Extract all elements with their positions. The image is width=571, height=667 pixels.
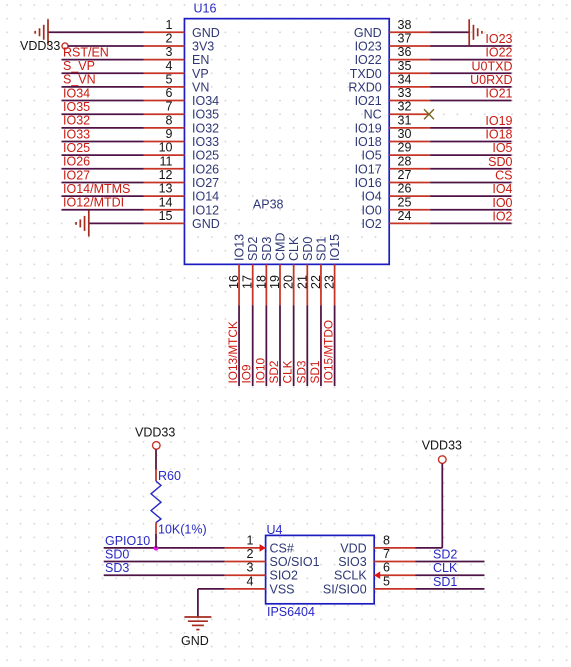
- svg-text:S_VN: S_VN: [63, 73, 96, 87]
- svg-text:IO21: IO21: [355, 94, 382, 108]
- svg-text:SIO2: SIO2: [270, 569, 299, 583]
- svg-text:IO2: IO2: [492, 209, 512, 223]
- svg-text:IO22: IO22: [485, 46, 512, 60]
- svg-text:19: 19: [268, 275, 282, 289]
- svg-text:6: 6: [383, 561, 390, 575]
- svg-text:3V3: 3V3: [192, 39, 214, 53]
- svg-text:27: 27: [398, 168, 412, 182]
- svg-text:SD1: SD1: [308, 361, 322, 384]
- svg-text:6: 6: [166, 86, 173, 100]
- svg-text:IO27: IO27: [63, 168, 90, 182]
- svg-text:IO15/MTDO: IO15/MTDO: [322, 320, 336, 384]
- svg-text:IO10: IO10: [253, 357, 267, 383]
- svg-text:IO19: IO19: [355, 121, 382, 135]
- svg-text:24: 24: [398, 209, 412, 223]
- svg-text:IO34: IO34: [192, 94, 219, 108]
- svg-text:36: 36: [398, 45, 412, 59]
- svg-text:IO12: IO12: [192, 203, 219, 217]
- svg-text:16: 16: [227, 275, 241, 289]
- svg-text:IO0: IO0: [492, 196, 512, 210]
- svg-text:7: 7: [383, 547, 390, 561]
- svg-text:CLK: CLK: [287, 236, 301, 261]
- svg-text:10: 10: [159, 141, 173, 155]
- svg-text:IO33: IO33: [192, 135, 219, 149]
- svg-text:VN: VN: [192, 80, 209, 94]
- svg-text:1: 1: [166, 18, 173, 32]
- svg-text:8: 8: [166, 113, 173, 127]
- svg-text:IO21: IO21: [485, 87, 512, 101]
- svg-text:SD0: SD0: [105, 548, 129, 562]
- svg-text:30: 30: [398, 127, 412, 141]
- svg-text:15: 15: [159, 209, 173, 223]
- svg-text:EN: EN: [192, 53, 209, 67]
- svg-text:IO12/MTDI: IO12/MTDI: [63, 196, 124, 210]
- svg-text:11: 11: [160, 154, 173, 168]
- svg-text:4: 4: [166, 59, 173, 73]
- svg-text:20: 20: [282, 275, 296, 289]
- svg-text:R60: R60: [158, 469, 181, 483]
- svg-text:38: 38: [398, 18, 412, 32]
- svg-text:GND: GND: [192, 26, 220, 40]
- svg-text:VP: VP: [192, 67, 209, 81]
- svg-text:8: 8: [383, 533, 390, 547]
- svg-text:SD0: SD0: [488, 155, 512, 169]
- svg-text:VDD33: VDD33: [135, 426, 175, 440]
- svg-text:14: 14: [159, 195, 173, 209]
- svg-text:4: 4: [247, 574, 254, 588]
- svg-text:IO19: IO19: [485, 114, 512, 128]
- svg-text:GND: GND: [181, 634, 209, 648]
- svg-text:VDD33: VDD33: [20, 39, 60, 53]
- svg-text:NC: NC: [364, 108, 382, 122]
- svg-text:23: 23: [323, 275, 337, 289]
- svg-text:IO25: IO25: [192, 149, 219, 163]
- svg-text:21: 21: [295, 275, 309, 289]
- svg-text:3: 3: [166, 45, 173, 59]
- svg-text:IO35: IO35: [63, 100, 90, 114]
- svg-text:IO2: IO2: [362, 217, 382, 231]
- svg-text:IO5: IO5: [492, 141, 512, 155]
- svg-text:10K(1%): 10K(1%): [158, 523, 207, 537]
- svg-text:IO0: IO0: [362, 203, 382, 217]
- svg-text:17: 17: [241, 275, 255, 289]
- svg-text:26: 26: [398, 182, 412, 196]
- svg-text:SD2: SD2: [246, 237, 260, 261]
- svg-text:IO35: IO35: [192, 108, 219, 122]
- svg-text:34: 34: [398, 72, 412, 86]
- svg-text:IO13: IO13: [233, 234, 247, 261]
- svg-text:IO15: IO15: [328, 234, 342, 261]
- svg-text:VDD33: VDD33: [422, 439, 462, 453]
- svg-text:IPS6404: IPS6404: [267, 605, 315, 619]
- svg-text:SD1: SD1: [314, 237, 328, 261]
- svg-text:U4: U4: [267, 523, 283, 537]
- svg-text:SCLK: SCLK: [334, 569, 367, 583]
- svg-text:IO18: IO18: [485, 128, 512, 142]
- svg-text:GPIO10: GPIO10: [105, 534, 150, 548]
- svg-text:1: 1: [247, 533, 254, 547]
- svg-text:IO26: IO26: [192, 162, 219, 176]
- svg-text:RXD0: RXD0: [348, 80, 381, 94]
- svg-text:SO/SIO1: SO/SIO1: [270, 555, 320, 569]
- svg-text:AP38: AP38: [253, 198, 284, 212]
- svg-text:9: 9: [166, 127, 173, 141]
- svg-text:IO23: IO23: [355, 39, 382, 53]
- svg-text:2: 2: [166, 31, 173, 45]
- svg-text:33: 33: [398, 86, 412, 100]
- svg-text:IO9: IO9: [240, 364, 254, 383]
- svg-text:VDD: VDD: [340, 541, 366, 555]
- svg-text:5: 5: [166, 72, 173, 86]
- svg-text:32: 32: [398, 100, 412, 114]
- svg-text:5: 5: [383, 574, 390, 588]
- svg-text:IO5: IO5: [362, 149, 382, 163]
- svg-text:28: 28: [398, 154, 412, 168]
- svg-text:IO4: IO4: [362, 190, 382, 204]
- svg-text:IO14: IO14: [192, 190, 219, 204]
- svg-text:IO26: IO26: [63, 155, 90, 169]
- svg-text:SD3: SD3: [105, 561, 129, 575]
- svg-text:18: 18: [254, 275, 268, 289]
- svg-text:35: 35: [398, 59, 412, 73]
- svg-text:SD1: SD1: [433, 575, 457, 589]
- svg-text:13: 13: [159, 182, 173, 196]
- svg-text:3: 3: [247, 561, 254, 575]
- svg-text:CS#: CS#: [270, 541, 294, 555]
- svg-text:IO17: IO17: [355, 162, 382, 176]
- svg-text:IO32: IO32: [192, 121, 219, 135]
- svg-text:IO32: IO32: [63, 114, 90, 128]
- svg-text:IO13/MTCK: IO13/MTCK: [226, 321, 240, 383]
- svg-text:SD3: SD3: [294, 360, 308, 383]
- svg-text:IO27: IO27: [192, 176, 219, 190]
- svg-text:IO18: IO18: [355, 135, 382, 149]
- svg-text:SD3: SD3: [260, 237, 274, 261]
- svg-text:IO22: IO22: [355, 53, 382, 67]
- svg-text:IO34: IO34: [63, 86, 90, 100]
- svg-text:CMD: CMD: [274, 233, 288, 261]
- svg-text:IO25: IO25: [63, 141, 90, 155]
- svg-text:TXD0: TXD0: [350, 67, 382, 81]
- svg-text:7: 7: [166, 100, 173, 114]
- svg-text:IO4: IO4: [492, 182, 512, 196]
- svg-text:U0TXD: U0TXD: [472, 59, 513, 73]
- svg-text:GND: GND: [192, 217, 220, 231]
- svg-text:GND: GND: [354, 26, 382, 40]
- svg-text:12: 12: [159, 168, 173, 182]
- svg-text:IO23: IO23: [485, 32, 512, 46]
- svg-text:CS: CS: [495, 168, 512, 182]
- svg-text:25: 25: [398, 195, 412, 209]
- svg-text:IO16: IO16: [355, 176, 382, 190]
- svg-text:IO14/MTMS: IO14/MTMS: [63, 182, 130, 196]
- svg-text:22: 22: [309, 275, 323, 289]
- svg-text:VSS: VSS: [270, 582, 295, 596]
- svg-text:CLK: CLK: [281, 360, 295, 383]
- svg-text:SI/SIO0: SI/SIO0: [323, 582, 367, 596]
- svg-text:U16: U16: [194, 1, 217, 15]
- svg-text:SD2: SD2: [267, 361, 281, 384]
- svg-text:31: 31: [398, 113, 412, 127]
- svg-text:CLK: CLK: [433, 561, 458, 575]
- svg-text:SIO3: SIO3: [338, 555, 367, 569]
- svg-text:SD0: SD0: [301, 237, 315, 261]
- svg-text:2: 2: [247, 547, 254, 561]
- svg-text:S_VP: S_VP: [63, 59, 95, 73]
- svg-text:SD2: SD2: [433, 548, 457, 562]
- svg-text:29: 29: [398, 141, 412, 155]
- svg-text:RST/EN: RST/EN: [63, 45, 109, 59]
- svg-text:U0RXD: U0RXD: [470, 73, 512, 87]
- svg-text:37: 37: [398, 31, 412, 45]
- svg-text:IO33: IO33: [63, 127, 90, 141]
